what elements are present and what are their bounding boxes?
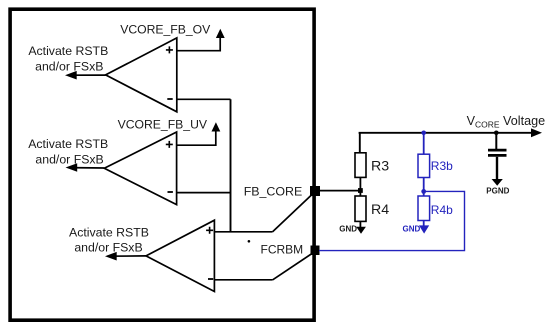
output arrow U2 bbox=[66, 163, 105, 172]
svg-text:GND: GND bbox=[339, 225, 357, 234]
wire FB_CORE vertical bus bbox=[230, 99, 232, 232]
output arrow U1 bbox=[65, 71, 106, 80]
ground GND blue (R4b) bbox=[419, 225, 429, 233]
svg-text:and/or FSxB: and/or FSxB bbox=[74, 240, 142, 254]
wire U3 minus bbox=[214, 279, 272, 281]
wire VCORE rail bbox=[359, 132, 534, 134]
wire blue FCRBM loop bbox=[319, 191, 465, 250]
svg-text:and/or FSxB: and/or FSxB bbox=[35, 59, 103, 73]
junction dot capacitor on rail bbox=[494, 131, 499, 136]
op-amp U3 bbox=[146, 220, 214, 291]
svg-text:VCORE_FB_UV: VCORE_FB_UV bbox=[118, 117, 208, 131]
node FCRBM pad bbox=[311, 246, 320, 256]
svg-text:PGND: PGND bbox=[486, 186, 509, 195]
svg-text:R3b: R3b bbox=[431, 159, 453, 173]
wire VCORE_FB_OV from U1 plus input bbox=[177, 38, 220, 51]
resistor R3 bbox=[355, 153, 366, 178]
arrowhead VCORE_FB_OV up bbox=[216, 29, 225, 38]
wire R4b to ground bbox=[423, 221, 425, 227]
wire R4 to ground bbox=[359, 221, 361, 227]
svg-text:Activate RSTB: Activate RSTB bbox=[28, 44, 108, 58]
resistor R4 bbox=[355, 196, 366, 221]
svg-text:FB_CORE: FB_CORE bbox=[244, 185, 303, 199]
node FB_CORE pad bbox=[310, 186, 320, 196]
label Activate RSTB / and-or FSxB (U3) bbox=[69, 225, 149, 254]
svg-text:Activate RSTB: Activate RSTB bbox=[69, 225, 149, 239]
wire FB_CORE to U3 plus input bbox=[214, 231, 272, 233]
svg-text:R4b: R4b bbox=[431, 203, 453, 217]
svg-text:FCRBM: FCRBM bbox=[261, 243, 304, 257]
resistor R3b bbox=[418, 154, 430, 177]
svg-text:GND: GND bbox=[403, 225, 421, 234]
junction dot blue on rail bbox=[421, 131, 426, 136]
wire U1 minus to bus bbox=[177, 98, 231, 100]
svg-text:and/or FSxB: and/or FSxB bbox=[35, 152, 103, 166]
resistor R4b bbox=[418, 196, 430, 221]
arrowhead VCORE rail right bbox=[531, 128, 542, 137]
junction dot node bbox=[248, 240, 251, 243]
op-amp U2 bbox=[104, 132, 176, 205]
wire rail down to R3 bbox=[359, 133, 361, 153]
junction dot blue R3b/R4b bbox=[421, 189, 426, 194]
wire blue rail to R3b bbox=[423, 133, 425, 154]
svg-text:VCORE_FB_OV: VCORE_FB_OV bbox=[120, 23, 211, 37]
svg-text:VCORE Voltage: VCORE Voltage bbox=[467, 114, 545, 129]
op-amp U1 bbox=[106, 38, 177, 112]
output arrow U3 bbox=[105, 252, 146, 261]
wire FB_CORE external to divider bbox=[315, 190, 360, 192]
junction pad FB_CORE/R3/R4 bbox=[358, 188, 363, 193]
chip boundary box bbox=[10, 9, 314, 320]
wire R3b to R4b bbox=[423, 178, 425, 197]
ground PGND arrow bbox=[492, 179, 503, 186]
wire capacitor to PGND bbox=[496, 157, 498, 180]
capacitor C1 bbox=[488, 150, 507, 155]
ground GND (R4) bbox=[356, 227, 366, 234]
wire FCRBM diagonal to pad bbox=[273, 254, 312, 280]
label Activate RSTB / and-or FSxB (U2) bbox=[28, 137, 108, 166]
label Activate RSTB / and-or FSxB (U1) bbox=[28, 44, 108, 73]
svg-text:R3: R3 bbox=[371, 159, 389, 175]
wire R3 to junction bbox=[359, 177, 361, 196]
svg-text:R4: R4 bbox=[371, 202, 389, 218]
svg-text:Activate RSTB: Activate RSTB bbox=[28, 137, 108, 151]
arrowhead VCORE_FB_UV up bbox=[212, 122, 221, 131]
wire FB_CORE diagonal to pad bbox=[273, 195, 312, 232]
wire rail to capacitor bbox=[495, 133, 497, 149]
wire U2 minus to bus bbox=[177, 192, 231, 194]
wire VCORE_FB_UV from U2 plus input bbox=[177, 131, 216, 145]
